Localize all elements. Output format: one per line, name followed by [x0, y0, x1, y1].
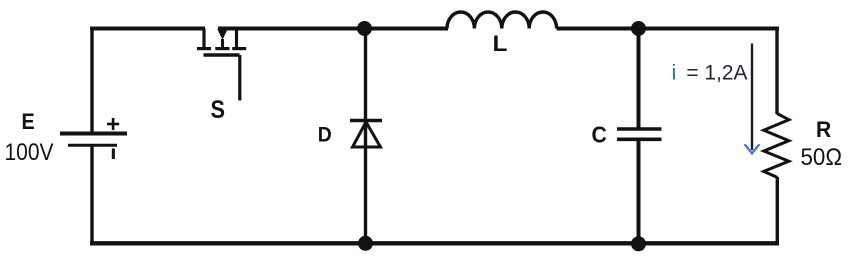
mosfet S gate plate	[204, 53, 240, 57]
capacitor C bottom plate	[617, 138, 662, 142]
wire: right vertical lower (resistor to bottom wire)	[776, 177, 779, 243]
battery plus sign	[107, 118, 119, 130]
wire: top right segment (inductor to right corner)	[557, 27, 779, 31]
battery E top plate	[60, 132, 127, 136]
wire: capacitor branch vertical lower	[637, 141, 641, 243]
wire: diode branch vertical	[364, 29, 367, 244]
node dot top-left junction (diode branch)	[357, 21, 372, 36]
svg-text:R: R	[816, 117, 831, 142]
mosfet S body stub	[221, 39, 224, 47]
resistor R zigzag	[764, 114, 789, 178]
mosfet S drain foot	[197, 47, 211, 50]
diode D cathode bar	[350, 119, 382, 122]
battery minus tick	[112, 149, 115, 160]
svg-text:i: i	[672, 62, 677, 85]
svg-text:S: S	[211, 96, 226, 124]
mosfet S source foot	[232, 47, 246, 50]
svg-text:L: L	[493, 31, 508, 56]
svg-text:50Ω: 50Ω	[801, 144, 843, 171]
battery E bottom plate	[68, 144, 117, 147]
node dot bottom diode junction	[358, 236, 373, 251]
node dot top-right junction (capacitor branch)	[631, 21, 646, 36]
mosfet S gate wire	[238, 55, 241, 101]
wire: right vertical upper (corner to resistor)	[775, 27, 778, 115]
wire: bottom rail	[90, 241, 779, 245]
svg-text:E: E	[22, 109, 35, 134]
mosfet S drain stub	[202, 29, 205, 48]
node dot bottom capacitor junction	[631, 236, 646, 251]
mosfet S body arrow	[217, 29, 227, 40]
wire: top middle segment (MOSFET source to inductor)	[218, 27, 448, 31]
inductor L	[447, 12, 557, 29]
wire: top-left segment from left corner to MOSFET drain	[90, 27, 205, 31]
wire: left vertical lower (battery bottom plate to bottom wire)	[90, 147, 93, 244]
wire: capacitor branch vertical upper	[637, 29, 641, 128]
wire: left vertical upper (corner to battery top plate)	[90, 27, 93, 132]
svg-text:D: D	[318, 123, 332, 146]
mosfet S source stub	[235, 29, 238, 48]
capacitor C top plate	[617, 127, 662, 131]
current arrow shaft	[751, 44, 753, 151]
svg-text:C: C	[592, 122, 607, 148]
diode D triangle	[353, 122, 381, 147]
svg-text:= 1,2A: = 1,2A	[686, 62, 747, 85]
mosfet S body foot	[215, 47, 229, 50]
current arrow head (blue open V)	[745, 145, 759, 153]
svg-text:100V: 100V	[5, 139, 54, 166]
